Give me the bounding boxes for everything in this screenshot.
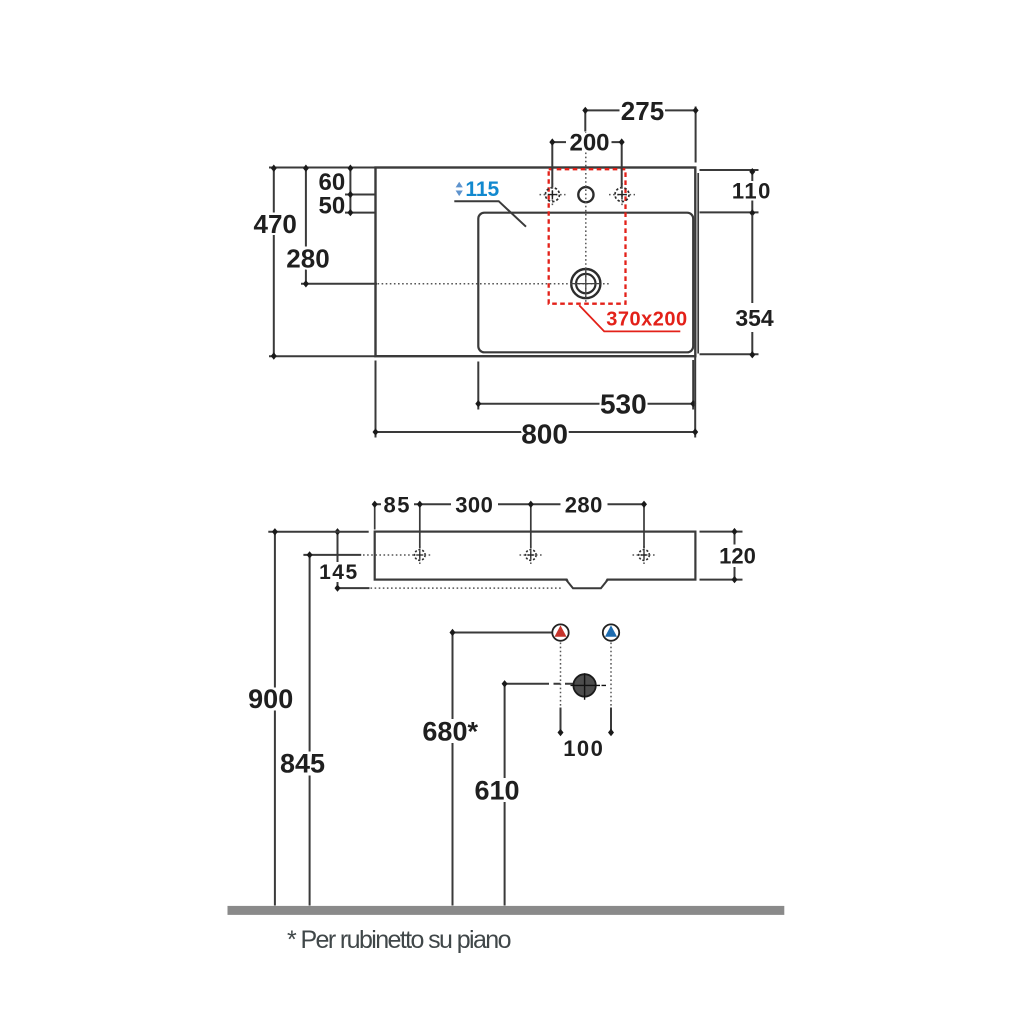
dim 610 [474, 680, 573, 905]
waste outlet [571, 673, 607, 699]
svg-text:50: 50 [319, 192, 346, 219]
svg-text:280: 280 [565, 492, 603, 517]
dim 100 right extension [608, 643, 614, 737]
faucet hole 2 (front) [520, 546, 544, 564]
svg-text:110: 110 [732, 179, 772, 204]
dim 680* [422, 629, 551, 906]
dim 200 (plan top) [549, 129, 624, 187]
drain (plan) [571, 269, 600, 298]
svg-text:* Per rubinetto su piano: * Per rubinetto su piano [287, 926, 511, 954]
svg-text:354: 354 [735, 305, 774, 331]
cold water symbol [603, 624, 619, 640]
basin front outline [375, 532, 696, 580]
faucet hole 1 (front) [415, 546, 426, 564]
floor line [228, 906, 785, 915]
845 reference line (left, solid) [303, 554, 361, 556]
svg-text:470: 470 [254, 209, 297, 239]
svg-text:85: 85 [384, 492, 411, 517]
dim 354 (plan right) [700, 215, 774, 359]
dim 280 (plan left) [286, 165, 377, 288]
dim 845 [280, 551, 325, 905]
dim 110 (plan right) [700, 168, 772, 217]
basin inner bowl (plan) [478, 213, 693, 353]
faucet hole 3 (front) [633, 546, 657, 564]
dim 120 (front right) [700, 528, 756, 583]
svg-text:280: 280 [286, 244, 329, 274]
svg-text:120: 120 [719, 544, 756, 569]
svg-text:145: 145 [319, 561, 359, 584]
faucet hole right (plan) [609, 183, 635, 206]
svg-text:845: 845 [280, 749, 325, 779]
svg-text:370x200: 370x200 [606, 309, 687, 331]
dim 530 (plan bottom) [475, 360, 696, 420]
red cut-out rectangle 370x200 [549, 169, 626, 304]
label 115 (blue) [454, 178, 526, 227]
svg-text:900: 900 [248, 684, 293, 714]
dim 85 300 280 (front top) [372, 492, 647, 548]
svg-text:610: 610 [474, 776, 519, 806]
dim 275 (plan top) [582, 96, 698, 163]
hole centerline (front, dotted) [363, 554, 433, 556]
faucet hole left (plan) [540, 183, 566, 206]
hot water symbol [552, 624, 568, 640]
svg-text:275: 275 [621, 96, 664, 126]
dim 470 (plan left) [254, 165, 376, 360]
svg-text:100: 100 [563, 736, 604, 761]
basin outer outline (plan) [376, 168, 699, 357]
svg-text:800: 800 [521, 419, 568, 450]
svg-text:530: 530 [600, 389, 647, 420]
svg-text:115: 115 [465, 178, 499, 201]
label 370x200 (red) [579, 305, 687, 331]
drain centerline horizontal (dotted) [378, 283, 610, 285]
drain tab (front bottom) [566, 577, 608, 588]
dim 900 [248, 528, 369, 905]
dim 100 left extension [558, 643, 564, 737]
svg-text:200: 200 [569, 129, 609, 156]
dim 145 (front left) [319, 528, 369, 592]
drain center cross ticks [571, 269, 601, 298]
svg-text:680*: 680* [422, 716, 478, 746]
dim 800 (plan bottom) [373, 357, 699, 450]
drain centerline vertical (dotted) [585, 132, 587, 303]
bottom reference line (front, dotted) [371, 587, 563, 589]
faucet hole middle (plan) [578, 187, 593, 202]
svg-text:300: 300 [455, 492, 493, 517]
dim 60 / 50 (plan left small) [319, 165, 377, 220]
